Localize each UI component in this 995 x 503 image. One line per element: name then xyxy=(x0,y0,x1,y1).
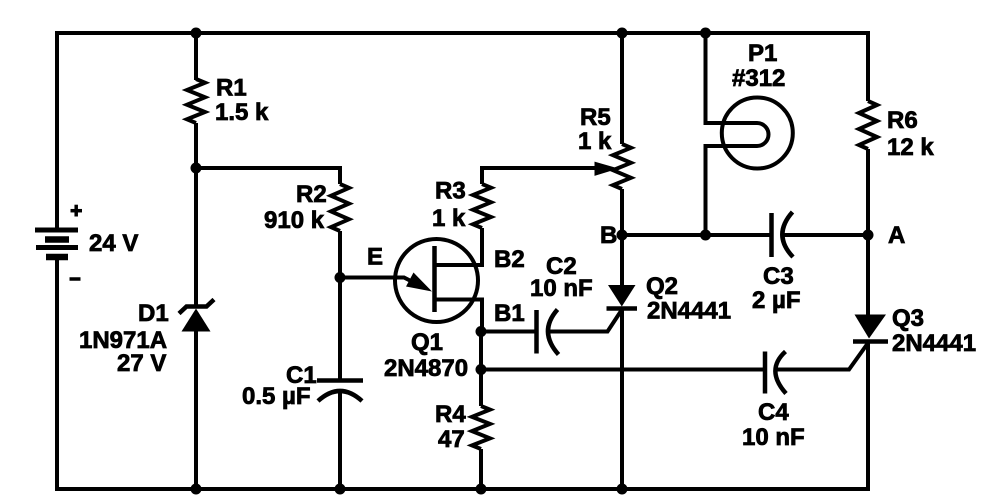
lamp P1 #312 top lead xyxy=(706,33,758,123)
wire right rail to R6 xyxy=(866,31,870,101)
resistor R6 xyxy=(859,101,877,149)
wire C4 to Q3 gate xyxy=(776,343,868,370)
wire node to R2 branch xyxy=(196,168,340,184)
node junction C1 / bottom rail xyxy=(335,484,346,495)
svg-text:10 nF: 10 nF xyxy=(742,424,805,451)
Q1 emitter arrowhead xyxy=(406,273,432,292)
svg-text:2 µF: 2 µF xyxy=(752,287,801,314)
node junction top rail / R5 xyxy=(617,28,628,39)
svg-text:R3: R3 xyxy=(435,178,466,205)
svg-text:24 V: 24 V xyxy=(89,230,138,257)
wire top rail to R5 xyxy=(620,33,624,144)
Q2 triangle xyxy=(608,285,636,307)
Q3 triangle xyxy=(855,315,887,339)
node junction top rail / R1 branch xyxy=(191,28,202,39)
svg-text:2N4441: 2N4441 xyxy=(892,330,976,357)
wire to R4 xyxy=(479,370,483,407)
wire R5 bottom to node B xyxy=(620,189,624,235)
thyristor Q2 2N4441 anode wire xyxy=(620,235,624,286)
resistor R1 xyxy=(187,79,205,123)
wire B1 to C2 xyxy=(481,330,537,334)
svg-text:10 nF: 10 nF xyxy=(530,275,593,302)
arrow to R5 wiper xyxy=(595,162,619,176)
svg-text:#312: #312 xyxy=(732,65,785,92)
svg-text:R6: R6 xyxy=(887,107,918,134)
battery BT1 24 V plates xyxy=(35,230,78,257)
node E junction xyxy=(335,272,346,283)
wire bottom rail xyxy=(55,487,868,491)
wire node B to C3 xyxy=(622,233,772,237)
node junction Q2 / bottom rail xyxy=(617,484,628,495)
Q2 cathode wire to bottom rail xyxy=(620,309,624,490)
node junction top rail / P1 xyxy=(700,28,711,39)
resistor R3 xyxy=(473,184,491,228)
svg-text:A: A xyxy=(888,222,905,249)
svg-text:2N4441: 2N4441 xyxy=(647,298,731,325)
node B junction xyxy=(617,230,628,241)
wire node E down to C1 xyxy=(338,278,342,381)
svg-text:1 k: 1 k xyxy=(432,205,466,232)
svg-text:2N4870: 2N4870 xyxy=(384,355,468,382)
svg-text:E: E xyxy=(367,244,383,271)
Q3 cathode bar xyxy=(853,339,888,344)
svg-text:Q3: Q3 xyxy=(892,305,924,332)
battery plus label xyxy=(71,205,83,217)
node junction B1 lower xyxy=(476,364,487,375)
Q3 cathode wire to bottom rail xyxy=(866,342,870,492)
wire D1 upper lead xyxy=(194,168,198,305)
svg-text:Q1: Q1 xyxy=(411,329,443,356)
wire C1 bottom lead xyxy=(338,391,342,489)
P1 bottom lead xyxy=(706,146,758,235)
svg-text:0.5 µF: 0.5 µF xyxy=(242,383,311,410)
svg-text:Q2: Q2 xyxy=(646,273,678,300)
wire top rail xyxy=(55,31,868,35)
svg-text:910 k: 910 k xyxy=(264,207,325,234)
wire R2 bottom lead to node E xyxy=(338,231,342,278)
svg-text:R2: R2 xyxy=(296,181,327,208)
Q1 B1 lead xyxy=(435,300,483,332)
svg-text:1.5 k: 1.5 k xyxy=(215,99,269,126)
diode D1 zener (1N971A 27 V) xyxy=(179,300,214,332)
svg-text:C3: C3 xyxy=(763,263,794,290)
wire R3 top lead xyxy=(482,168,604,184)
Q2 cathode bar xyxy=(607,306,638,311)
wire E node to Q1 emitter xyxy=(340,278,416,284)
node A junction xyxy=(863,230,874,241)
node junction B1 xyxy=(476,326,487,337)
svg-text:B1: B1 xyxy=(494,300,525,327)
svg-text:R5: R5 xyxy=(580,104,611,131)
node junction R4 / bottom rail xyxy=(476,484,487,495)
wire left rail lower (battery - to bottom rail) xyxy=(55,258,59,491)
wire R1 top lead xyxy=(194,33,198,80)
wire C2 to Q2 gate xyxy=(549,310,623,332)
wire C3 to node A xyxy=(783,233,868,237)
svg-text:27 V: 27 V xyxy=(117,350,166,377)
wire R4 bottom lead xyxy=(479,449,483,489)
wire R1 bottom lead to node xyxy=(194,123,198,168)
resistor R2 xyxy=(331,184,349,231)
transistor Q1 2N4870 UJT body circle xyxy=(395,239,478,322)
resistor R5 (pot) xyxy=(613,144,631,189)
P1 filament cap xyxy=(757,123,769,146)
battery minus label xyxy=(70,277,81,281)
svg-text:R1: R1 xyxy=(216,75,247,102)
svg-text:R4: R4 xyxy=(435,401,466,428)
wire left rail upper (to battery +) xyxy=(55,31,59,230)
svg-text:P1: P1 xyxy=(748,40,777,67)
resistor R4 xyxy=(472,406,490,449)
svg-text:12 k: 12 k xyxy=(887,134,934,161)
capacitor C1 xyxy=(317,381,363,402)
wire D1 lower lead xyxy=(194,331,198,489)
Q1 base bar xyxy=(432,246,437,312)
node junction P1 / node B wire xyxy=(700,230,711,241)
wire B1 down to lower node xyxy=(479,332,483,370)
wire R6 bottom to node A xyxy=(866,149,870,235)
P1 bulb circle xyxy=(722,98,793,169)
svg-text:D1: D1 xyxy=(138,300,169,327)
node junction D1 / bottom rail xyxy=(191,484,202,495)
svg-text:C4: C4 xyxy=(758,399,789,426)
svg-text:B2: B2 xyxy=(494,246,525,273)
capacitor C4 xyxy=(765,352,786,394)
wire B1 lower node to C4 xyxy=(481,368,765,372)
Q1 B2 lead xyxy=(435,228,483,265)
thyristor Q3 2N4441 anode wire xyxy=(866,235,870,316)
node junction R1/D1/R2 xyxy=(191,163,202,174)
svg-text:1 k: 1 k xyxy=(578,128,612,155)
svg-text:B: B xyxy=(600,222,617,249)
svg-text:47: 47 xyxy=(438,426,465,453)
capacitor C3 xyxy=(772,212,794,257)
capacitor C2 xyxy=(537,310,559,355)
